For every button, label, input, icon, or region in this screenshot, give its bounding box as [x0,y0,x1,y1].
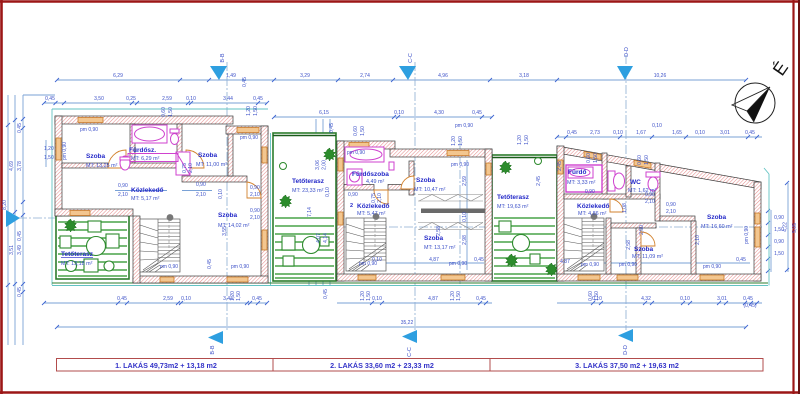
svg-text:0,10: 0,10 [218,189,224,199]
svg-text:C-C: C-C [408,53,414,63]
dim labels top main [113,73,666,79]
svg-text:0,10: 0,10 [695,130,705,136]
svg-text:MT: 11,09 m²: MT: 11,09 m² [632,254,663,260]
svg-text:2,59: 2,59 [162,96,172,102]
svg-text:0,45: 0,45 [17,231,23,241]
svg-text:1,20: 1,20 [44,146,54,152]
svg-text:pm 0,90: pm 0,90 [80,127,98,133]
svg-text:Közlekedő: Közlekedő [577,203,610,210]
svg-text:3,44: 3,44 [223,96,233,102]
svg-text:4,49 m²: 4,49 m² [366,179,384,185]
svg-text:Közlekedő: Közlekedő [357,203,390,210]
svg-text:2,45: 2,45 [536,176,542,186]
svg-text:Tetőterasz: Tetőterasz [292,178,325,185]
svg-text:6,29: 6,29 [113,73,123,79]
svg-text:0,10: 0,10 [613,130,623,136]
svg-text:MT: 23,33 m²: MT: 23,33 m² [292,188,324,194]
svg-text:MT: 3,33 m²: MT: 3,33 m² [567,180,596,186]
svg-text:0,45: 0,45 [45,96,55,102]
svg-text:0,45: 0,45 [253,96,263,102]
svg-text:(0,45): (0,45) [743,303,756,309]
svg-text:1,20: 1,20 [517,135,523,145]
svg-text:35,22: 35,22 [401,320,414,326]
svg-text:WC: WC [630,179,641,186]
svg-text:3. LAKÁS 37,50 m2 + 19,63 m2: 3. LAKÁS 37,50 m2 + 19,63 m2 [575,361,679,370]
svg-text:pm 0,90: pm 0,90 [703,264,721,270]
svg-text:1,50: 1,50 [236,291,242,301]
svg-text:1,50: 1,50 [774,251,784,257]
svg-text:pm 0,90: pm 0,90 [231,264,249,270]
svg-text:1,50: 1,50 [458,136,464,146]
svg-text:3,29: 3,29 [300,73,310,79]
svg-text:0,45: 0,45 [736,257,746,263]
compass [732,58,792,123]
svg-text:1,50: 1,50 [168,107,174,117]
svg-text:0,10: 0,10 [652,123,662,129]
svg-text:0,45: 0,45 [743,296,753,302]
svg-text:pm 0,90: pm 0,90 [455,123,473,129]
svg-text:2,10: 2,10 [695,235,701,245]
svg-text:2,59: 2,59 [462,176,468,186]
svg-text:2,73: 2,73 [590,130,600,136]
svg-text:Közlekedő: Közlekedő [131,187,164,194]
svg-text:0,45: 0,45 [242,77,248,87]
svg-text:MT: 5,17 m²: MT: 5,17 m² [131,196,160,202]
row4 labels unit3 [567,123,755,136]
top main dim line [57,79,746,81]
door arcs [108,150,261,198]
svg-text:0,45: 0,45 [567,130,577,136]
svg-text:0,10: 0,10 [680,296,690,302]
svg-text:Fürdősz.: Fürdősz. [129,147,156,154]
svg-text:MT: 6,29 m²: MT: 6,29 m² [131,156,160,162]
svg-text:2. LAKÁS 33,60 m2 + 23,33 m2: 2. LAKÁS 33,60 m2 + 23,33 m2 [330,361,434,370]
svg-text:1,20: 1,20 [246,106,252,116]
svg-text:1,50: 1,50 [524,135,530,145]
svg-text:0,45: 0,45 [476,296,486,302]
svg-text:MT: 13,18 m²: MT: 13,18 m² [61,261,93,267]
svg-text:pm 0,90: pm 0,90 [62,142,68,160]
svg-text:1,08: 1,08 [622,203,628,213]
svg-text:3,51: 3,51 [9,245,15,255]
svg-text:0,90: 0,90 [250,208,260,214]
svg-text:4,32: 4,32 [641,296,651,302]
svg-text:0,45: 0,45 [117,296,127,302]
svg-text:0,60: 0,60 [353,126,359,136]
windows orange [56,118,267,283]
svg-text:4,07: 4,07 [316,233,322,243]
svg-text:1,50: 1,50 [253,106,259,116]
svg-text:0,10: 0,10 [325,187,331,197]
left vertical labels (rotated) [2,123,23,297]
bottom row unit3 [557,302,762,304]
svg-text:2,10: 2,10 [645,199,655,205]
svg-text:3,18: 3,18 [519,73,529,79]
svg-text:Szoba: Szoba [218,212,238,219]
svg-text:0,10: 0,10 [186,96,196,102]
svg-text:0,45: 0,45 [17,123,23,133]
svg-text:pm 0,90: pm 0,90 [619,262,637,268]
svg-text:0,45: 0,45 [474,257,484,263]
windows [338,143,491,281]
svg-text:0,90: 0,90 [774,239,784,245]
svg-text:Fürdőszoba: Fürdőszoba [352,171,389,178]
svg-text:3,49: 3,49 [17,245,23,255]
beam band between szoba [421,209,485,214]
svg-text:pm 0,90: pm 0,90 [581,262,599,268]
svg-text:MT: 5,47 m²: MT: 5,47 m² [357,211,386,217]
svg-text:0,10: 0,10 [462,212,468,222]
row3 labels [319,110,482,116]
dim tick marks [6,78,789,329]
bottom row unit1 [44,302,267,304]
right side labels [774,215,798,257]
svg-text:pm 0,90: pm 0,90 [240,135,258,141]
svg-text:2,98: 2,98 [462,235,468,245]
svg-text:Fürdő: Fürdő [568,169,586,176]
svg-text:Szoba: Szoba [634,246,654,253]
svg-text:Szoba: Szoba [86,153,106,160]
svg-text:2,50: 2,50 [639,225,645,235]
svg-text:3,50: 3,50 [94,96,104,102]
svg-text:2,74: 2,74 [360,73,370,79]
svg-text:0,45: 0,45 [745,130,755,136]
section labels [210,47,630,357]
section lines dash-dot [18,55,762,330]
svg-text:4,96: 4,96 [438,73,448,79]
svg-text:0,90: 0,90 [585,189,595,195]
svg-text:1,50: 1,50 [593,153,599,163]
svg-text:0,90: 0,90 [196,182,206,188]
svg-text:1. LAKÁS 49,73m2 + 13,18 m2: 1. LAKÁS 49,73m2 + 13,18 m2 [115,361,217,370]
svg-text:Szoba: Szoba [416,177,436,184]
left vertical dim lines [7,95,9,345]
svg-text:MT: 10,47 m²: MT: 10,47 m² [414,187,446,193]
svg-text:D-D: D-D [624,47,630,57]
windows on slant and walls [558,152,760,281]
svg-text:Tetőterasz: Tetőterasz [61,251,94,258]
svg-text:2,58: 2,58 [626,240,632,250]
svg-text:10,26: 10,26 [654,73,667,79]
svg-text:3,55: 3,55 [222,226,228,236]
svg-text:2,58: 2,58 [436,226,442,236]
svg-text:1,50: 1,50 [644,155,650,165]
svg-text:Szoba: Szoba [198,152,218,159]
svg-text:pm 0,90: pm 0,90 [160,264,178,270]
svg-text:1,50: 1,50 [594,291,600,301]
svg-text:1,50: 1,50 [366,291,372,301]
row2 unit1 [44,102,267,104]
svg-text:MT: 19,63 m²: MT: 19,63 m² [497,204,529,210]
svg-text:0,90: 0,90 [666,202,676,208]
svg-text:2,10: 2,10 [118,192,128,198]
svg-text:4,30: 4,30 [434,110,444,116]
svg-text:1,67: 1,67 [636,130,646,136]
svg-text:4,87: 4,87 [560,259,570,265]
svg-text:0,10: 0,10 [372,296,382,302]
svg-text:1,20: 1,20 [451,136,457,146]
svg-text:4,14: 4,14 [323,233,329,243]
svg-text:0,10: 0,10 [372,257,382,263]
svg-text:2,59: 2,59 [163,296,173,302]
svg-text:0,90: 0,90 [250,185,260,191]
svg-text:4,87: 4,87 [428,296,438,302]
svg-text:0,90: 0,90 [348,192,358,198]
svg-text:6,15: 6,15 [319,110,329,116]
svg-text:0,10: 0,10 [181,296,191,302]
svg-text:8,20: 8,20 [2,200,8,210]
svg-text:MT: 4,86 m²: MT: 4,86 m² [578,211,607,217]
svg-text:0,60: 0,60 [637,155,643,165]
svg-text:2,10: 2,10 [196,192,206,198]
svg-text:2,45: 2,45 [557,161,563,171]
svg-text:2,00: 2,00 [322,160,328,170]
svg-text:2,10: 2,10 [250,215,260,221]
svg-text:0,60: 0,60 [161,107,167,117]
svg-text:2,10: 2,10 [377,193,383,203]
svg-text:2,10: 2,10 [666,209,676,215]
svg-text:MT: 11,00 m²: MT: 11,00 m² [196,162,227,168]
svg-text:3,01: 3,01 [720,130,730,136]
svg-text:MT: 13,17 m²: MT: 13,17 m² [424,245,456,251]
svg-text:1,50: 1,50 [44,155,54,161]
svg-text:MT: 13,25 m²: MT: 13,25 m² [86,163,118,169]
svg-text:1,49: 1,49 [226,73,236,79]
row4 unit3 [557,136,762,138]
svg-text:Szoba: Szoba [707,214,727,221]
svg-text:2,10: 2,10 [250,192,260,198]
section triangles [6,66,633,344]
svg-text:2,10: 2,10 [188,163,194,173]
svg-text:pm 0,90: pm 0,90 [449,261,467,267]
svg-text:0,45: 0,45 [252,296,262,302]
svg-text:7,14: 7,14 [307,207,313,217]
svg-text:3,06: 3,06 [315,160,321,170]
row3 unit2 [274,116,492,118]
bottom rows labels [117,296,757,326]
svg-text:0,45: 0,45 [323,289,329,299]
svg-text:4,87: 4,87 [429,257,439,263]
svg-text:4,22: 4,22 [783,222,789,232]
svg-text:B-B: B-B [210,345,216,355]
svg-text:Tetőterasz: Tetőterasz [497,194,530,201]
svg-text:0,60: 0,60 [586,153,592,163]
row2 labels [45,96,263,102]
slanted top wall [557,146,761,189]
svg-text:MT: 16,60 m²: MT: 16,60 m² [701,224,733,230]
svg-text:3,78: 3,78 [17,161,23,171]
svg-text:0,90: 0,90 [118,183,128,189]
svg-text:4,69: 4,69 [9,161,15,171]
svg-text:0,45: 0,45 [17,287,23,297]
svg-text:1,50: 1,50 [456,291,462,301]
svg-text:1,50: 1,50 [360,126,366,136]
bottom overall [57,326,746,328]
svg-text:2: 2 [350,203,353,209]
svg-text:0,45: 0,45 [329,123,335,133]
right vertical dims [770,210,772,272]
svg-text:pm 0,90: pm 0,90 [744,226,750,244]
svg-text:1,65: 1,65 [672,130,682,136]
svg-text:0,25: 0,25 [126,96,136,102]
svg-text:0,90: 0,90 [645,192,655,198]
svg-text:C-C: C-C [407,347,413,357]
svg-text:5,05: 5,05 [792,223,798,233]
svg-text:3,01: 3,01 [717,296,727,302]
svg-text:0,45: 0,45 [472,110,482,116]
svg-text:0,45: 0,45 [207,259,213,269]
svg-text:0,10: 0,10 [394,110,404,116]
svg-text:0,90: 0,90 [774,215,784,221]
svg-text:pm 0,90: pm 0,90 [347,150,365,156]
bottom table [57,359,764,372]
svg-text:D-D: D-D [623,345,629,355]
svg-text:B-B: B-B [220,53,226,63]
svg-text:pm 0,90: pm 0,90 [451,162,469,168]
